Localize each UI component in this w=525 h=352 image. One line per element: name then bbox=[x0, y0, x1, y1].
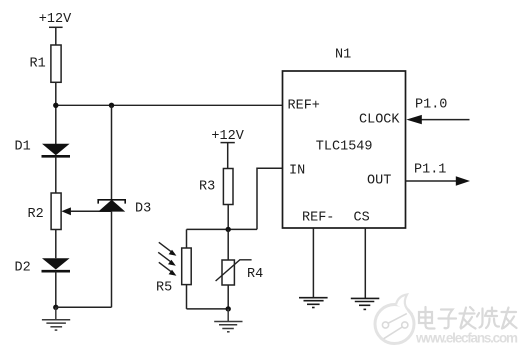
wire R1 to D1 bbox=[55, 82, 57, 144]
resistor R1 bbox=[51, 45, 61, 82]
diode D1 bbox=[42, 144, 71, 157]
diode D2 bbox=[42, 258, 71, 271]
junction node bottom (middle) bbox=[226, 306, 231, 311]
svg-text:N1: N1 bbox=[335, 48, 351, 63]
svg-text:+12V: +12V bbox=[39, 12, 72, 27]
wire +12V to R3 bbox=[227, 143, 229, 169]
wire R4 to bottom junction bbox=[227, 285, 229, 309]
ground (REF-) bbox=[299, 298, 328, 308]
svg-text:REF+: REF+ bbox=[288, 99, 320, 114]
junction node at ground (left) bbox=[53, 305, 58, 310]
svg-text:www.elecfans.com: www.elecfans.com bbox=[415, 331, 518, 346]
wire D1 to R2 bbox=[55, 156, 57, 193]
watermark logo circle (elecfans) bbox=[375, 295, 414, 344]
power terminal bar (middle +12V) bbox=[221, 142, 235, 144]
CLOCK input wire with arrow bbox=[406, 115, 469, 124]
wire R3 to junction bbox=[227, 205, 229, 230]
wire junction to R4 bbox=[227, 229, 229, 260]
potentiometer R2 bbox=[51, 193, 61, 230]
diode D3 (zener) bbox=[98, 200, 125, 212]
junction node R3/R4/R5 bbox=[226, 227, 231, 232]
wire CS to ground bbox=[364, 228, 366, 298]
wire R5 to bottom rail bbox=[186, 285, 188, 309]
wire node REF+ rail bbox=[56, 104, 283, 106]
watermark char 烧 bbox=[477, 308, 499, 329]
junction node at D3 branch bbox=[109, 103, 114, 108]
ground (middle) bbox=[214, 309, 242, 332]
wire riser to IN bbox=[257, 168, 283, 229]
svg-text:D1: D1 bbox=[15, 139, 31, 154]
wire +12V to R1 bbox=[55, 27, 57, 45]
svg-text:CLOCK: CLOCK bbox=[359, 113, 400, 128]
thermistor R4 bbox=[222, 260, 234, 285]
op-amp/ADC U1 box (TLC1549) bbox=[283, 71, 406, 228]
wire D3 anode down bbox=[111, 212, 113, 308]
svg-text:R3: R3 bbox=[199, 179, 215, 194]
R5 light arrow 3 bbox=[159, 262, 177, 275]
ground (left) bbox=[42, 307, 70, 330]
wire junction to R5 bbox=[186, 229, 188, 248]
junction node at R1/D1 bbox=[53, 103, 58, 108]
wire REF- to ground bbox=[312, 228, 314, 298]
photoresistor R5 bbox=[182, 248, 192, 285]
svg-text:P1.1: P1.1 bbox=[414, 163, 446, 178]
R5 light arrow 1 bbox=[159, 242, 177, 255]
wire R2 to D2 bbox=[55, 230, 57, 259]
svg-text:REF-: REF- bbox=[302, 211, 334, 226]
svg-text:TLC1549: TLC1549 bbox=[316, 140, 373, 155]
ground (CS) bbox=[351, 298, 380, 309]
resistor R3 bbox=[223, 169, 233, 205]
watermark char 发 bbox=[460, 307, 476, 329]
power terminal bar (left +12V) bbox=[49, 26, 63, 28]
R2 wiper arrow bbox=[61, 207, 111, 215]
svg-text:P1.0: P1.0 bbox=[415, 98, 447, 113]
wire D2 to ground junction bbox=[55, 271, 57, 307]
svg-text:R2: R2 bbox=[28, 207, 44, 222]
svg-text:D2: D2 bbox=[15, 260, 31, 275]
svg-text:R1: R1 bbox=[30, 57, 46, 72]
svg-text:D3: D3 bbox=[135, 201, 151, 216]
wire bottom rail R5 to R4 bbox=[187, 308, 229, 310]
OUT output wire with arrow bbox=[406, 176, 471, 185]
R5 light arrow 2 bbox=[158, 252, 176, 265]
watermark char 子 bbox=[439, 310, 457, 329]
wire junction rail to IN riser bbox=[187, 228, 258, 230]
svg-text:OUT: OUT bbox=[367, 173, 391, 188]
svg-text:R4: R4 bbox=[247, 267, 263, 282]
R4 diagonal stroke bbox=[216, 260, 252, 281]
watermark char 友 bbox=[502, 308, 517, 329]
svg-text:R5: R5 bbox=[156, 280, 172, 295]
wire D3 branch to ground junction bbox=[56, 306, 112, 308]
svg-text:IN: IN bbox=[289, 164, 305, 179]
svg-text:CS: CS bbox=[354, 211, 370, 226]
wire node to D3 cathode bbox=[111, 105, 113, 200]
svg-text:+12V: +12V bbox=[211, 129, 244, 144]
watermark char 电 bbox=[419, 307, 435, 329]
